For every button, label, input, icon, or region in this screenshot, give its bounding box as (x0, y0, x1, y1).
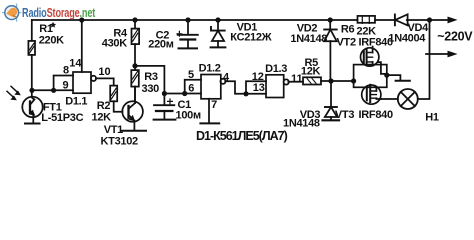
svg-text:R1: R1 (39, 23, 53, 35)
svg-text:KT3102: KT3102 (101, 135, 139, 147)
svg-text:L-51P3C: L-51P3C (41, 112, 83, 124)
svg-text:7: 7 (211, 99, 217, 111)
svg-text:10: 10 (98, 66, 110, 78)
svg-text:100м: 100м (176, 110, 201, 122)
svg-text:D1.2: D1.2 (199, 63, 221, 75)
svg-text:IRF840: IRF840 (359, 109, 393, 121)
svg-text:4: 4 (223, 72, 230, 84)
svg-text:8: 8 (63, 65, 69, 77)
svg-text:R6: R6 (341, 23, 355, 35)
svg-text:1N4148: 1N4148 (290, 33, 327, 45)
svg-text:9: 9 (63, 80, 69, 92)
svg-text:H1: H1 (425, 112, 439, 124)
svg-text:RadioStorage.net: RadioStorage.net (22, 7, 96, 21)
svg-text:R3: R3 (144, 71, 158, 83)
svg-text:~220V: ~220V (437, 29, 473, 43)
svg-text:220м: 220м (148, 39, 173, 51)
svg-text:VT1: VT1 (104, 124, 123, 136)
svg-text:D1.1: D1.1 (65, 95, 87, 107)
svg-text:D1.3: D1.3 (265, 63, 287, 75)
svg-text:12K: 12K (92, 112, 112, 124)
svg-text:220K: 220K (39, 35, 64, 47)
svg-text:13: 13 (253, 82, 265, 94)
svg-text:12K: 12K (301, 65, 321, 77)
svg-text:1N4004: 1N4004 (388, 32, 426, 44)
svg-text:VT2 IRF840: VT2 IRF840 (337, 36, 393, 48)
svg-text:КС212Ж: КС212Ж (230, 32, 271, 44)
svg-text:1N4148: 1N4148 (283, 118, 320, 130)
svg-text:430K: 430K (102, 38, 127, 50)
svg-text:330: 330 (142, 83, 160, 95)
svg-text:VT3: VT3 (335, 109, 354, 121)
svg-text:11: 11 (291, 73, 303, 85)
svg-text:D1-К561ЛЕ5(ЛА7): D1-К561ЛЕ5(ЛА7) (196, 129, 288, 143)
svg-text:14: 14 (69, 57, 82, 69)
svg-text:6: 6 (188, 82, 194, 94)
svg-text:5: 5 (188, 69, 194, 81)
svg-text:R2: R2 (97, 100, 111, 112)
